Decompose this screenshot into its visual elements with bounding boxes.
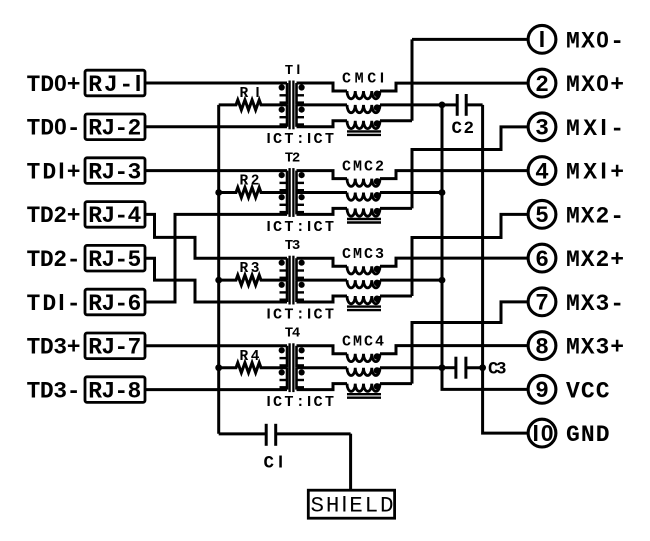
pin circle 1: [528, 25, 556, 53]
label TD1+: [27, 157, 81, 185]
transformer T2: [279, 168, 305, 217]
wire RJ-1 to T1 top: [145, 82, 287, 85]
svg-text:T4: T4: [285, 326, 301, 342]
connector pin RJ-4: [85, 202, 145, 230]
connector pin RJ-6: [85, 289, 145, 317]
svg-text:I: I: [539, 26, 545, 52]
pin circle 4: [528, 157, 556, 186]
connector pin RJ-5: [85, 245, 145, 273]
svg-text:RJ-6: RJ-6: [88, 291, 141, 317]
svg-text:CMC2: CMC2: [342, 158, 384, 175]
label C2: [452, 119, 475, 139]
svg-text:TD3-: TD3-: [27, 378, 81, 404]
common-mode choke CMC4: [297, 346, 529, 398]
pin circle 8: [528, 332, 556, 361]
svg-text:MXI-: MXI-: [566, 114, 624, 142]
svg-text:8: 8: [535, 334, 549, 360]
label R4: [240, 349, 260, 365]
svg-text:7: 7: [535, 291, 549, 317]
connector SHIELD: [308, 490, 394, 519]
svg-text:CI: CI: [264, 451, 284, 473]
label C1: [264, 451, 284, 473]
svg-text:RJ-5: RJ-5: [88, 247, 141, 273]
wire RJ-4 to T3 top (jog): [145, 214, 287, 258]
wire RJ-3 to T2 top: [145, 169, 287, 172]
resistor R2: [215, 188, 287, 198]
svg-text:RJ-4: RJ-4: [88, 203, 141, 229]
wire RJ-6 to T2 bottom (jog): [145, 214, 287, 302]
common-mode choke CMC1: [297, 83, 529, 135]
svg-text:SHIELD: SHIELD: [311, 492, 394, 519]
svg-text:MX3-: MX3-: [566, 291, 624, 317]
wire primary center-tap bus: [217, 105, 220, 434]
transformer T1: [279, 81, 305, 130]
label MX2-: [566, 203, 624, 229]
svg-text:TD2-: TD2-: [27, 247, 81, 273]
svg-text:3: 3: [535, 116, 549, 142]
label R2: [240, 174, 260, 190]
label MX2+: [566, 247, 624, 273]
label CMC4: [342, 334, 384, 351]
svg-text:TD3+: TD3+: [27, 335, 81, 361]
svg-text:CMC4: CMC4: [342, 334, 384, 351]
svg-text:MXI+: MXI+: [566, 158, 624, 186]
svg-text:TDI+: TDI+: [27, 157, 81, 185]
label MX0-: [566, 26, 624, 54]
svg-text:GND: GND: [566, 422, 610, 448]
wire RJ-8 to T4 bottom: [145, 388, 287, 391]
connector pin RJ-7: [85, 333, 145, 361]
svg-text:TD2+: TD2+: [27, 203, 81, 229]
pin circle 7: [528, 288, 556, 317]
label CMC3: [342, 246, 384, 263]
label ICT:ICT (T1 ratio): [267, 130, 335, 148]
label MX3-: [566, 291, 624, 317]
label CMC2: [342, 158, 384, 175]
label TD3-: [27, 378, 81, 404]
label T1: [285, 61, 301, 79]
connector pin RJ-8: [85, 377, 145, 405]
svg-text:T3: T3: [285, 238, 301, 254]
svg-text:TD0-: TD0-: [27, 114, 81, 142]
label CMC1: [342, 70, 384, 88]
wire ground line to pin 10 (GND): [483, 105, 529, 433]
wire CMC3 bottom to pin 5: [412, 214, 529, 296]
wire CMC1 bottom to pin 1: [412, 39, 529, 120]
label MX0+: [566, 70, 624, 98]
label MX1-: [566, 114, 624, 142]
wire RJ-7 to T4 top: [145, 344, 287, 347]
svg-text:C2: C2: [452, 119, 475, 139]
capacitor C2: [442, 94, 483, 116]
svg-text:RJ-7: RJ-7: [88, 335, 141, 361]
label C3: [488, 360, 507, 380]
label TD2-: [27, 247, 81, 273]
label TD0+: [27, 70, 81, 98]
pin circle 5: [528, 200, 556, 229]
wire secondary center-tap bus to pin 9 (VCC): [439, 102, 529, 390]
svg-text:2: 2: [535, 72, 549, 98]
svg-text:I0: I0: [533, 420, 554, 446]
pin circle 10: [528, 419, 556, 447]
svg-text:C3: C3: [488, 360, 507, 380]
label TD1-: [27, 289, 81, 317]
svg-text:5: 5: [535, 203, 549, 229]
common-mode choke CMC3: [297, 258, 529, 310]
wire RJ-5 to T3 bottom (jog): [145, 258, 287, 302]
svg-text:CMC3: CMC3: [342, 246, 384, 263]
svg-text:RJ-3: RJ-3: [88, 159, 141, 185]
svg-text:9: 9: [535, 378, 549, 404]
svg-text:T2: T2: [285, 150, 301, 166]
wire CMC4 bottom to pin 7: [412, 302, 529, 384]
wire C1 to shield: [349, 434, 352, 490]
pin circle 6: [528, 244, 556, 273]
connector pin RJ-3: [85, 158, 145, 186]
label ICT:ICT (T3 ratio): [267, 305, 335, 323]
resistor R3: [215, 275, 287, 285]
label T4: [285, 326, 301, 342]
capacitor C3: [442, 357, 486, 379]
pin circle 2: [528, 69, 556, 98]
svg-text:4: 4: [535, 159, 549, 185]
svg-text:MX2-: MX2-: [566, 203, 624, 229]
common-mode choke CMC2: [297, 171, 529, 223]
label T3: [285, 238, 301, 254]
svg-text:RJ-8: RJ-8: [88, 378, 141, 404]
svg-text:TD0+: TD0+: [27, 70, 81, 98]
transformer T3: [279, 256, 305, 305]
pin circle 3: [528, 113, 556, 142]
label TD3+: [27, 335, 81, 361]
capacitor C1: [219, 424, 351, 446]
connector pin RJ-2: [85, 114, 145, 142]
label GND: [566, 422, 610, 448]
resistor R4: [215, 363, 287, 373]
label ICT:ICT (T4 ratio): [267, 393, 335, 411]
label TD0-: [27, 114, 81, 142]
label R1: [240, 85, 260, 102]
wire RJ-2 to T1 bottom: [145, 125, 287, 128]
label T2: [285, 150, 301, 166]
svg-text:RJ-2: RJ-2: [88, 116, 141, 142]
svg-text:MX3+: MX3+: [566, 335, 624, 361]
svg-text:VCC: VCC: [566, 378, 610, 404]
svg-text:6: 6: [535, 247, 549, 273]
pin circle 9: [528, 375, 556, 404]
label TD2+: [27, 203, 81, 229]
label VCC: [566, 378, 610, 404]
svg-text:TDI-: TDI-: [27, 289, 81, 317]
resistor R1: [219, 100, 287, 110]
svg-text:TI: TI: [285, 61, 301, 79]
label MX3+: [566, 335, 624, 361]
label R3: [240, 261, 260, 277]
connector pin RJ-1: [85, 70, 145, 98]
svg-text:MX2+: MX2+: [566, 247, 624, 273]
transformer T4: [279, 343, 305, 392]
label ICT:ICT (T2 ratio): [267, 218, 335, 236]
label MX1+: [566, 158, 624, 186]
wire CMC2 bottom to pin 3: [412, 127, 529, 209]
